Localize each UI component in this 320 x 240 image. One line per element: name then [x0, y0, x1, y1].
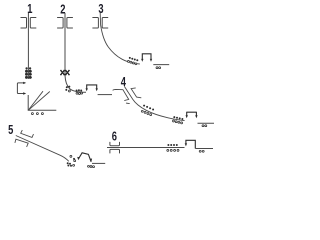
rod guide eyelet step 2 [57, 18, 73, 29]
arrowhead left leg step 4 [186, 115, 188, 118]
svg-text:5: 5 [8, 124, 13, 138]
tail line step 3 [153, 64, 169, 66]
wrap dots cluster b lower step 4 [173, 120, 183, 124]
standing line curve step 3 [100, 13, 140, 64]
wrap donuts step 5 [70, 155, 76, 166]
wrap dots cluster a upper step 4 [143, 105, 154, 111]
coil cross wraps step 2 [61, 70, 70, 75]
rod guide eyelet step 1 [21, 18, 37, 29]
loop strand b step 1 [28, 92, 49, 111]
tag end bridge step 2 [87, 84, 97, 88]
standing line step 6 [107, 147, 185, 149]
loop strand a step 1 [28, 91, 43, 110]
wrap donuts lower step 6 [167, 149, 179, 151]
tail donuts step 5 [88, 165, 95, 167]
arrowhead bottom of hook step 1 [23, 92, 26, 94]
arrowhead right leg step 4 [195, 115, 197, 118]
arrowhead top of hook step 1 [23, 82, 26, 84]
wrap dots cluster b step 2 [76, 89, 83, 91]
tail donuts step 4 [202, 125, 207, 127]
wrap dots upper row step 3 [129, 57, 139, 61]
rod guide eyelet step 4 right bracket [131, 88, 141, 98]
rod guide eyelet step 4 lower tick [126, 102, 130, 105]
rod guide eyelet step 4 left bracket [113, 89, 129, 100]
tail donuts step 6 [199, 150, 204, 152]
rod guide eyelet step 3 [92, 18, 108, 29]
svg-text:4: 4 [121, 75, 127, 89]
rod guide eyelet step 6 upper bracket [110, 142, 120, 146]
tail line step 4 [198, 122, 215, 124]
tail donuts step 3 [156, 67, 161, 69]
wrap dots step 5 [67, 158, 75, 167]
svg-text:3: 3 [98, 3, 103, 17]
tail line step 2 [98, 94, 112, 96]
bead dots step 1 [31, 113, 43, 115]
tag end bridge step 6 [186, 140, 195, 149]
wrap dot donut step 2 [68, 90, 70, 92]
arrowhead left leg step 2 [86, 88, 88, 91]
tag end bridge step 3 [142, 53, 151, 59]
tag end bridge step 5 [78, 153, 91, 162]
arrowhead right leg step 5 [90, 159, 92, 163]
wrap dots upper step 6 [167, 144, 177, 146]
wrap dots lower row step 3 [127, 60, 136, 64]
coil wraps step 1 [25, 68, 32, 79]
tail line step 5 [92, 162, 105, 164]
wrap dots cluster a step 2 [65, 86, 70, 91]
svg-text:6: 6 [112, 130, 117, 144]
arrowhead left leg step 5 [77, 157, 80, 160]
coil cross tip blobs step 2 [60, 70, 70, 76]
rod guide eyelet step 5 upper bracket [21, 130, 34, 137]
standing line step 5 [16, 136, 69, 162]
wrap dots cluster b upper step 4 [173, 116, 183, 120]
arrowhead left leg step 3 [141, 59, 143, 62]
line lower segment step 1 [28, 95, 56, 110]
tag end bridge step 4 [187, 112, 197, 116]
standing line curve step 4 [124, 86, 184, 120]
rod guide eyelet step 5 lower bracket [15, 139, 28, 147]
standing line step 1 [27, 13, 29, 79]
rod guide eyelet step 6 lower bracket [110, 149, 120, 153]
arrowhead left leg step 6 [185, 143, 187, 146]
standing line step 2 [65, 13, 86, 92]
wrap dots cluster a lower step 4 [141, 110, 151, 115]
arrowhead right leg step 3 [150, 59, 152, 62]
tail line step 6 [195, 148, 213, 150]
tag end hook step 1 [17, 83, 24, 94]
wrap donuts cluster b step 2 [76, 92, 83, 94]
arrowhead right leg step 2 [96, 88, 98, 91]
